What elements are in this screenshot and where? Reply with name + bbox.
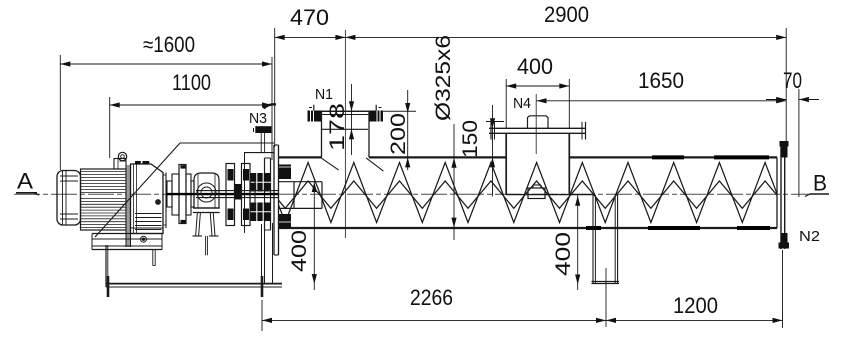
text 1600	[143, 32, 195, 57]
conveyor tube bottom wall	[279, 227, 778, 229]
wire discharge trough bottom edge	[506, 194, 593, 196]
N2 nozzle	[779, 233, 790, 249]
text dia325x6	[432, 35, 455, 121]
N1 flange bolt left	[308, 105, 322, 123]
wire main shaft centerline	[14, 193, 812, 195]
inlet hopper N1 flange	[310, 111, 417, 114]
text 470	[290, 5, 329, 30]
svg-text:70: 70	[783, 68, 802, 93]
stand anchor pin	[206, 236, 208, 255]
label N2	[799, 228, 820, 245]
support leg center line	[605, 268, 607, 327]
text 1200	[673, 293, 718, 318]
tube end plate (drive end)	[274, 145, 279, 255]
svg-text:178: 178	[326, 103, 349, 151]
coupling right flange	[242, 164, 251, 226]
N4 box left wall	[505, 133, 507, 194]
support leg	[592, 195, 620, 284]
text 400 N4	[517, 54, 553, 79]
gearbox top bolts	[135, 161, 149, 165]
dim line 178	[349, 84, 354, 155]
svg-text:A: A	[17, 169, 33, 194]
dim line 400 N4	[506, 83, 569, 88]
svg-text:470: 470	[290, 5, 329, 30]
svg-text:N1: N1	[315, 86, 333, 103]
dim 1100 extension left	[109, 97, 111, 158]
label N3	[249, 110, 267, 127]
gearbox housing	[131, 164, 164, 234]
bearing flange plate	[265, 158, 271, 230]
bolts plate right bottom	[279, 214, 291, 229]
svg-text:2900: 2900	[544, 2, 589, 27]
text 2900	[544, 2, 589, 27]
text 200	[387, 113, 410, 155]
gearmotor base plate	[92, 234, 162, 250]
conveyor tube top wall	[279, 156, 778, 158]
svg-text:1650: 1650	[638, 68, 684, 93]
svg-text:N4: N4	[513, 95, 531, 112]
hanger bearing block	[528, 185, 545, 199]
label N4	[513, 95, 531, 112]
frame left upright	[106, 245, 108, 287]
text 1100	[172, 70, 211, 95]
tube right end flange	[781, 143, 785, 249]
screw flight outer helix	[279, 163, 778, 223]
dim line dia325	[451, 124, 456, 240]
text 2266	[410, 285, 453, 310]
output coupling discs	[167, 165, 194, 224]
bolt rows through end plate	[248, 171, 272, 223]
svg-text:1200: 1200	[673, 293, 718, 318]
right flange top bolt	[780, 141, 789, 158]
dim 2900 extension right	[785, 28, 787, 141]
dim 2266 ext left	[261, 300, 263, 331]
coupling right hub	[250, 181, 255, 207]
dim line 1200	[606, 318, 783, 323]
N1 hopper inner ledge	[322, 128, 369, 130]
N1 chute cut left	[320, 157, 338, 170]
motor fan cowl	[57, 171, 81, 226]
dim line 2266	[262, 318, 606, 323]
label B	[805, 171, 829, 197]
gearbox fins	[135, 214, 162, 230]
dim line 70 left part	[766, 97, 786, 102]
plate top weld mark	[264, 104, 277, 108]
pillow bearing block	[194, 173, 219, 208]
svg-text:B: B	[813, 171, 827, 196]
dim line 1100	[110, 102, 272, 107]
motor junction box	[114, 159, 126, 170]
bolts plate right top	[279, 165, 291, 180]
dim 470 extension left	[274, 28, 276, 147]
node N1 hopper center axis line	[344, 30, 346, 238]
frame bottom rail	[106, 284, 282, 287]
svg-text:400: 400	[552, 232, 575, 276]
dim line 400 right	[575, 195, 580, 290]
dim 1600 extension left	[59, 55, 61, 170]
text 150	[459, 120, 482, 158]
dim right extension at coupling face	[271, 57, 273, 160]
svg-text:N2: N2	[799, 228, 820, 245]
screw flight inner helix	[279, 181, 778, 208]
svg-text:400: 400	[288, 230, 311, 272]
N4 port flange	[489, 122, 586, 140]
N4 box right wall	[568, 133, 570, 194]
motor ribbed body	[81, 169, 127, 230]
tube right end wall	[776, 157, 778, 228]
text 400 left	[288, 230, 311, 272]
dim line 1650	[537, 98, 787, 103]
N1 chute cut right	[366, 158, 383, 171]
tube weld reinforcement segments	[586, 157, 770, 228]
base plate pin	[153, 250, 155, 266]
dim 400 N4 ext right	[568, 79, 570, 128]
drive shaft	[166, 191, 278, 198]
text 1650	[638, 68, 684, 93]
bearing stand	[193, 208, 220, 236]
svg-text:2266: 2266	[410, 285, 453, 310]
gearbox output face	[163, 173, 166, 229]
label N1	[315, 86, 333, 103]
text 400 right	[552, 232, 575, 276]
guard cover slanted edge	[95, 143, 180, 237]
dim line 400 left	[312, 181, 317, 290]
svg-text:Ø325x6: Ø325x6	[432, 35, 455, 121]
text 178	[326, 103, 349, 151]
dim line 200	[405, 90, 410, 170]
text 70	[783, 68, 802, 93]
dim 400 N4 ext left	[505, 79, 507, 128]
svg-text:N3: N3	[249, 110, 267, 127]
N1 flange bolt right	[369, 105, 383, 123]
label A	[16, 169, 39, 196]
coupling center hub	[235, 170, 242, 219]
frame section tick left	[107, 276, 110, 297]
dim line 1600	[60, 61, 272, 66]
svg-text:400: 400	[517, 54, 553, 79]
dim 150 tick	[486, 121, 504, 123]
dim 1200 ext right	[782, 250, 784, 328]
N3 nozzle	[254, 126, 272, 152]
guard cover top edge	[180, 142, 274, 144]
dim line 150	[490, 105, 495, 197]
gearbox eyebolt	[118, 152, 126, 161]
svg-text:≈1600: ≈1600	[143, 32, 195, 57]
N4 port cap	[528, 116, 549, 129]
frame top rail	[244, 153, 274, 233]
motor clamp flange	[126, 165, 131, 247]
node N4 center axis line	[535, 94, 537, 154]
frame right upright	[262, 223, 273, 284]
frame section tick right	[261, 276, 264, 297]
dim line 470	[275, 35, 346, 40]
dim 70 ext right	[798, 89, 800, 197]
svg-text:150: 150	[459, 120, 482, 158]
svg-text:1100: 1100	[172, 70, 211, 95]
base plate bolt	[141, 236, 147, 242]
N1 hopper right wall	[368, 111, 370, 157]
N1 hopper left wall	[321, 111, 323, 157]
screw drive shaft housing	[279, 182, 323, 209]
dim line 2900	[345, 35, 786, 40]
dim line 70 right part	[799, 97, 819, 102]
coupling left flange	[226, 164, 235, 226]
svg-text:200: 200	[387, 113, 410, 155]
gearbox oil plug	[156, 200, 161, 205]
